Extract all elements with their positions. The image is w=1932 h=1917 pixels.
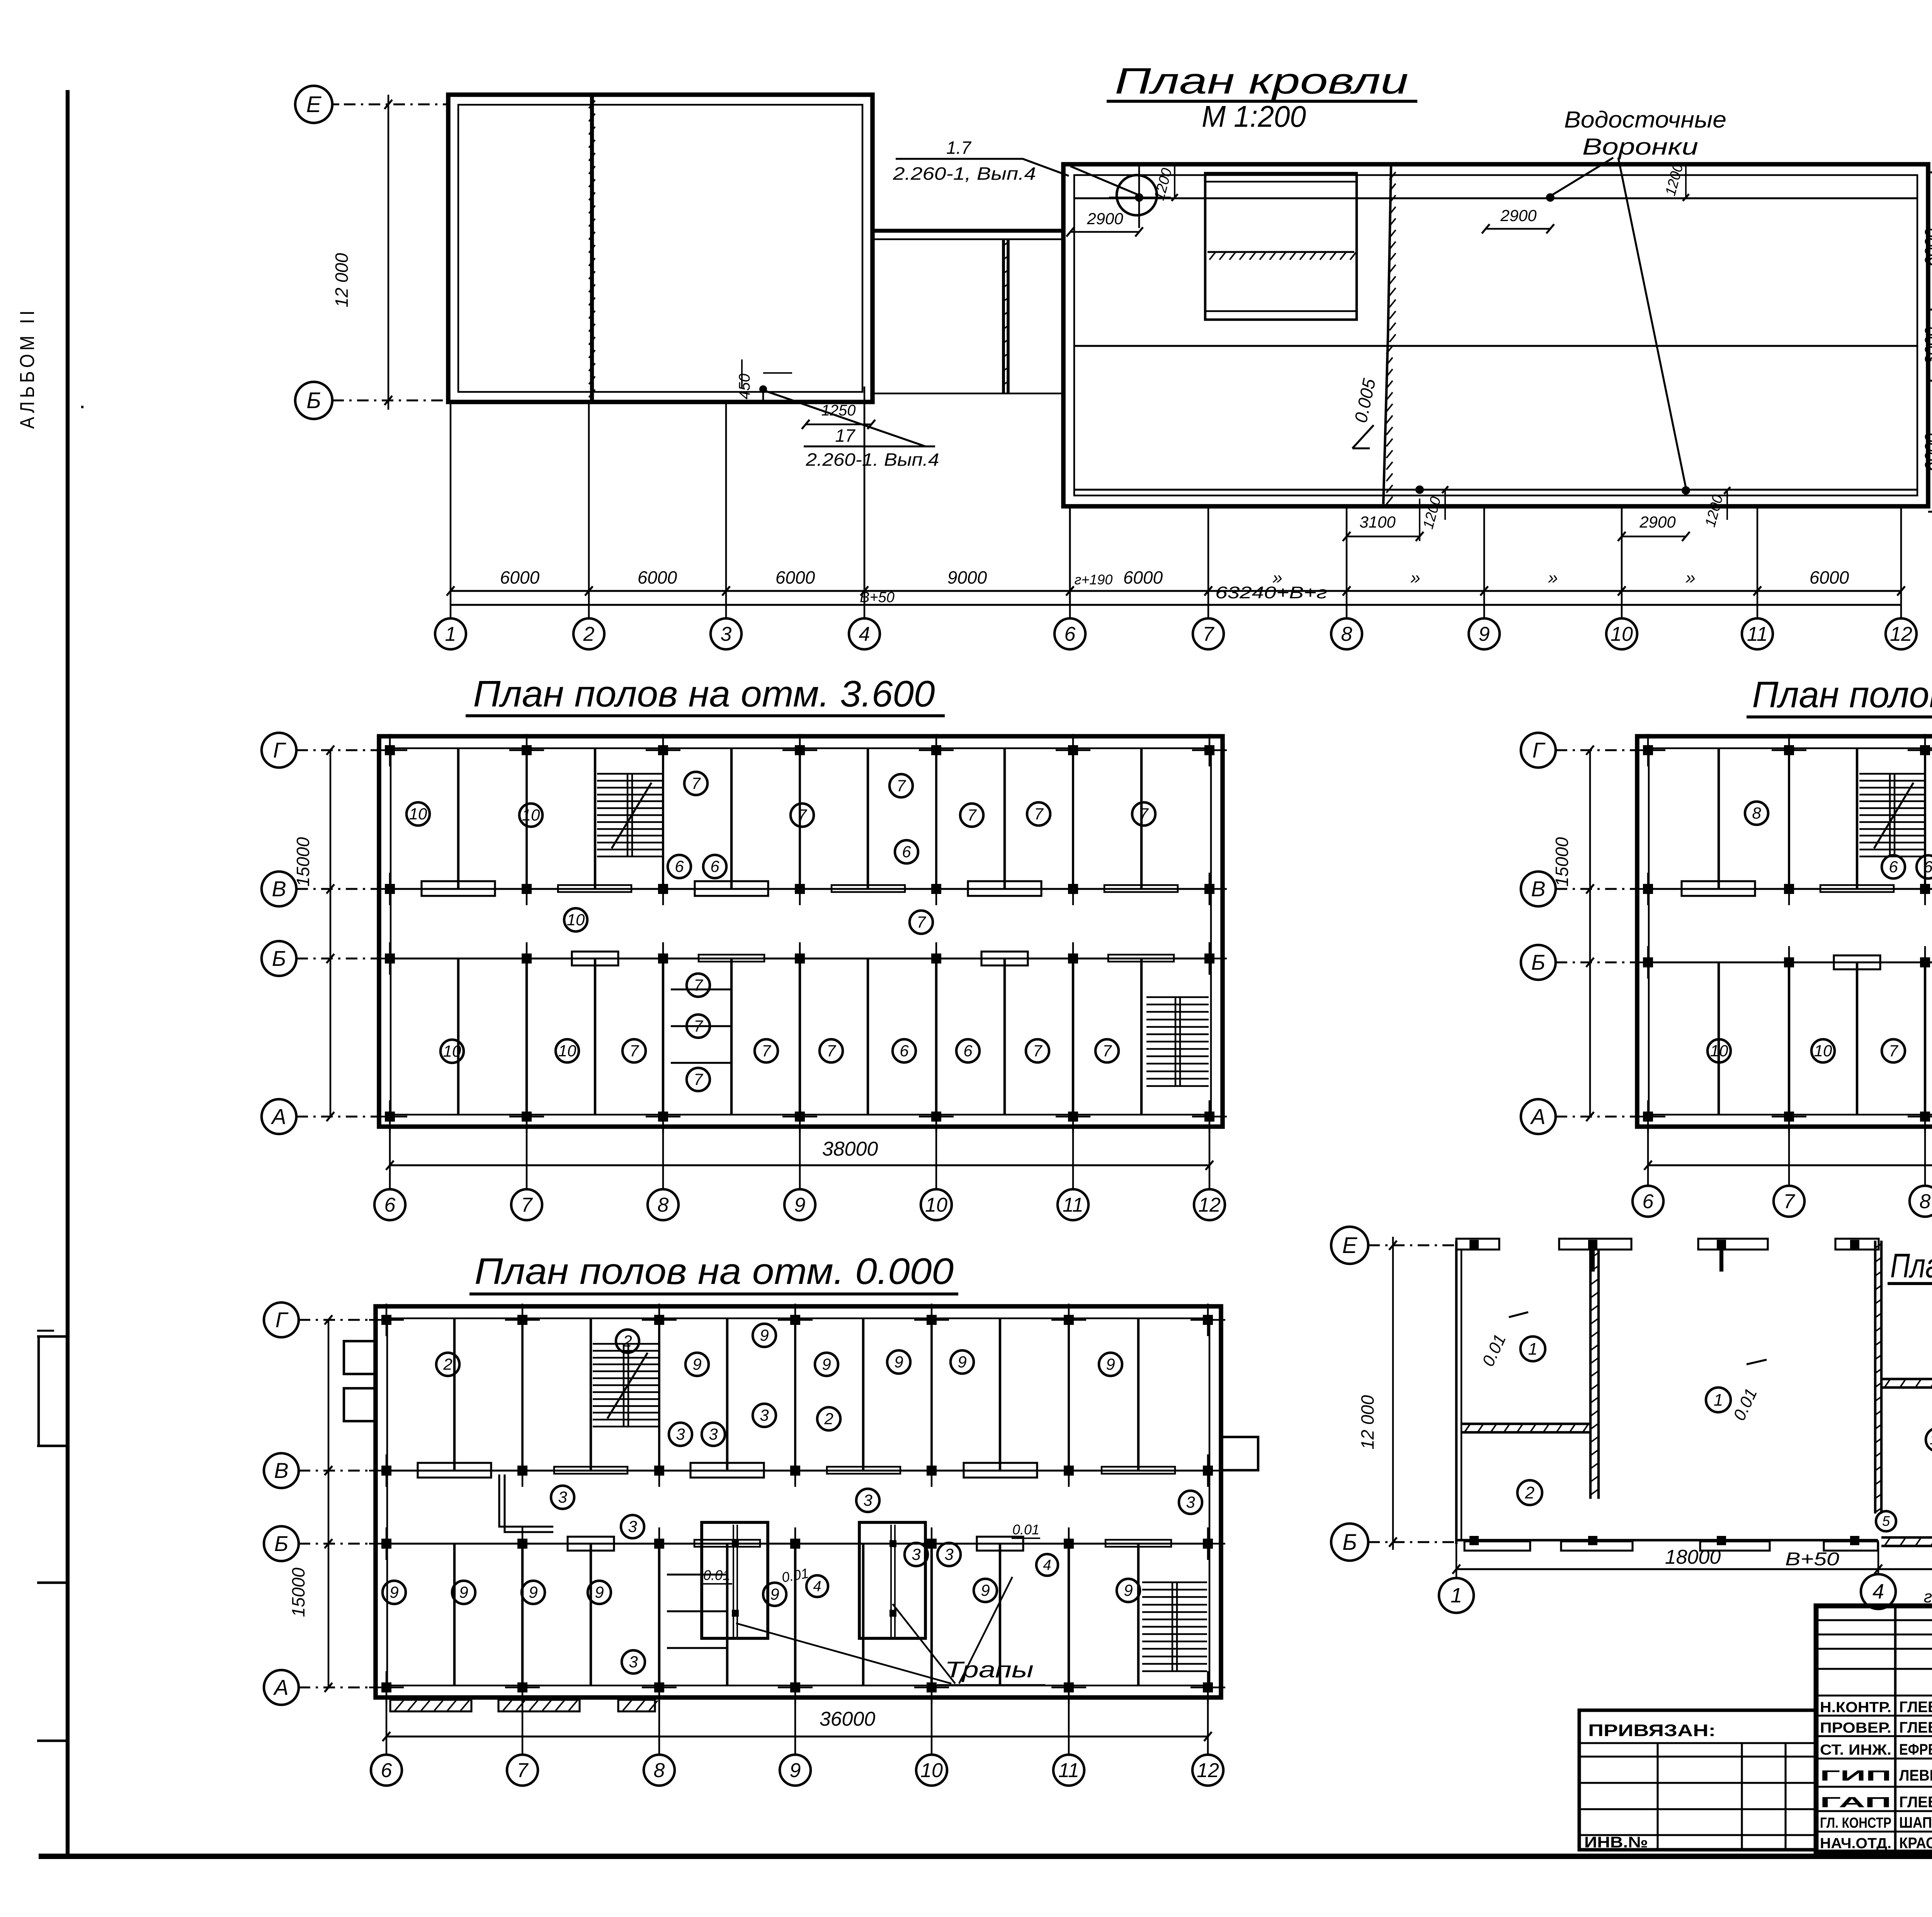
svg-text:ГЛЕБОВ: ГЛЕБОВ [1899,1719,1932,1736]
svg-text:А: А [270,1104,286,1129]
svg-text:Водосточные: Водосточные [1564,107,1726,133]
svg-text:Г: Г [1532,738,1546,762]
svg-text:В: В [274,1458,288,1483]
svg-text:10: 10 [558,1042,577,1060]
svg-text:3: 3 [628,1517,637,1536]
svg-text:7: 7 [1102,1042,1112,1060]
svg-text:7: 7 [629,1042,639,1060]
svg-text:7: 7 [521,1194,533,1216]
svg-text:12 000: 12 000 [332,253,352,307]
svg-text:12 000: 12 000 [1357,1395,1378,1449]
svg-text:Е: Е [306,92,322,117]
svg-text:СТ. ИНЖ.: СТ. ИНЖ. [1820,1742,1891,1758]
svg-text:10: 10 [925,1194,947,1216]
svg-text:9: 9 [389,1583,398,1601]
svg-text:2: 2 [824,1410,833,1428]
svg-text:7: 7 [917,913,926,931]
svg-text:6: 6 [1923,858,1932,876]
svg-text:7: 7 [694,1070,703,1088]
svg-text:3100: 3100 [1359,513,1396,531]
svg-text:38000: 38000 [822,1138,878,1160]
svg-text:Трапы: Трапы [945,1657,1034,1682]
svg-text:3: 3 [863,1491,872,1509]
svg-text:7: 7 [762,1042,771,1060]
svg-text:3: 3 [676,1425,685,1443]
svg-text:450: 450 [736,374,753,400]
svg-text:Воронки: Воронки [1582,134,1698,160]
svg-text:6: 6 [1643,1190,1654,1213]
svg-text:А: А [273,1675,288,1699]
svg-text:7: 7 [1139,805,1149,823]
svg-text:4: 4 [1043,1557,1051,1573]
svg-text:1: 1 [1451,1584,1462,1607]
svg-text:»: » [1685,567,1696,587]
svg-text:Б: Б [306,388,321,413]
svg-text:9: 9 [760,1326,769,1344]
svg-text:В: В [272,877,286,901]
svg-text:2900: 2900 [1639,513,1676,531]
svg-text:15000: 15000 [288,1568,308,1617]
svg-text:8: 8 [654,1759,665,1782]
svg-text:6: 6 [710,857,719,875]
svg-text:6: 6 [963,1042,973,1060]
svg-text:3: 3 [912,1545,920,1563]
svg-text:7: 7 [691,774,701,792]
svg-text:9: 9 [1106,1355,1115,1373]
svg-text:КРАСАВИН: КРАСАВИН [1899,1835,1932,1852]
svg-text:6: 6 [902,843,911,861]
svg-text:ГИП: ГИП [1820,1768,1891,1784]
svg-text:9: 9 [981,1581,990,1599]
svg-text:10: 10 [567,911,585,929]
svg-text:г+190: г+190 [1075,572,1113,587]
svg-text:9: 9 [894,1353,903,1371]
svg-text:15000: 15000 [293,837,313,887]
svg-text:Е: Е [1342,1233,1358,1258]
svg-text:2900: 2900 [1500,206,1537,225]
svg-text:9: 9 [595,1583,604,1601]
svg-text:6: 6 [675,857,684,875]
svg-text:6: 6 [1889,858,1898,876]
svg-text:ГЛ. КОНСТР: ГЛ. КОНСТР [1820,1815,1891,1831]
svg-text:0.01: 0.01 [703,1567,730,1583]
svg-text:36000: 36000 [820,1708,876,1730]
svg-text:63240+В+г: 63240+В+г [1215,583,1327,602]
svg-text:10: 10 [443,1042,461,1060]
svg-text:4: 4 [859,623,870,645]
svg-text:В+50: В+50 [860,589,895,606]
svg-text:2: 2 [443,1355,452,1373]
svg-text:11: 11 [1063,1194,1083,1216]
svg-text:7: 7 [694,1017,703,1035]
svg-text:ШАПИРО: ШАПИРО [1899,1814,1932,1831]
svg-text:ПРОВЕР.: ПРОВЕР. [1820,1720,1891,1736]
svg-text:1.7: 1.7 [946,138,971,158]
svg-text:2: 2 [1525,1483,1534,1502]
svg-text:9: 9 [1479,623,1490,645]
svg-text:ЛЕВИНА: ЛЕВИНА [1899,1767,1932,1784]
svg-text:6: 6 [1065,623,1076,645]
svg-text:6: 6 [384,1194,396,1216]
svg-text:7: 7 [517,1759,529,1782]
svg-text:6000: 6000 [1810,567,1849,587]
svg-text:А: А [1530,1104,1545,1129]
svg-text:НАЧ.ОТД.: НАЧ.ОТД. [1820,1835,1891,1852]
svg-text:9: 9 [770,1585,779,1603]
svg-text:10: 10 [522,806,540,824]
svg-text:3000: 3000 [1922,327,1932,365]
svg-text:Н.КОНТР.: Н.КОНТР. [1820,1699,1891,1716]
svg-text:В: В [1531,877,1545,901]
svg-text:10: 10 [409,805,427,823]
svg-text:17: 17 [835,426,855,446]
svg-text:8: 8 [1920,1190,1931,1213]
svg-text:3: 3 [760,1406,769,1424]
svg-text:ЕФРЕМОВА: ЕФРЕМОВА [1899,1741,1932,1758]
svg-text:Г: Г [273,738,286,762]
svg-text:2900: 2900 [1087,209,1123,228]
svg-text:4: 4 [813,1578,821,1595]
svg-text:8: 8 [1752,804,1761,822]
svg-text:15000: 15000 [1552,837,1572,887]
svg-text:3: 3 [721,623,732,645]
svg-text:9000: 9000 [947,567,987,587]
svg-text:1: 1 [445,623,456,645]
svg-text:7: 7 [1889,1042,1898,1060]
svg-text:Б: Б [1342,1530,1357,1555]
svg-text:5: 5 [1882,1513,1890,1529]
svg-text:3: 3 [1186,1493,1195,1511]
svg-text:10: 10 [920,1759,943,1782]
svg-text:1а: 1а [1930,1432,1932,1447]
svg-text:7: 7 [1203,623,1215,645]
svg-text:7: 7 [967,806,977,824]
svg-text:12: 12 [1890,623,1912,645]
svg-text:2.260-1. Вып.4: 2.260-1. Вып.4 [805,449,939,470]
svg-text:1: 1 [1714,1391,1723,1410]
svg-text:ГАП: ГАП [1820,1794,1891,1811]
svg-text:3: 3 [629,1653,638,1671]
svg-text:2.260-1, Вып.4: 2.260-1, Вып.4 [893,163,1036,184]
svg-text:9: 9 [1124,1581,1133,1599]
svg-text:М 1:200: М 1:200 [1202,99,1306,133]
svg-text:План полов на отм. 3.600: План полов на отм. 3.600 [473,673,935,715]
svg-text:6000: 6000 [1922,433,1932,471]
svg-text:10: 10 [1710,1042,1728,1060]
svg-text:10: 10 [1611,623,1633,645]
svg-text:ГЛЕБОВ: ГЛЕБОВ [1899,1699,1932,1716]
svg-text:7: 7 [694,976,703,994]
svg-text:7: 7 [1033,1042,1043,1060]
svg-text:В+50: В+50 [1785,1549,1839,1570]
svg-text:4: 4 [1872,1580,1884,1603]
svg-text:12: 12 [1198,1194,1221,1216]
svg-text:»: » [1548,567,1558,587]
svg-text:8: 8 [1341,623,1352,645]
svg-text:6: 6 [381,1759,392,1782]
svg-text:6000: 6000 [776,567,815,587]
svg-text:План кровли: План кровли [1115,61,1408,102]
svg-text:План полов на отм. 0.000: План полов на отм. 0.000 [474,1251,954,1292]
svg-text:7: 7 [827,1042,836,1060]
svg-text:7: 7 [896,776,906,795]
svg-text:План полов на отм. 7.200: План полов на отм. 7.200 [1752,674,1932,715]
svg-text:6000: 6000 [500,567,540,587]
svg-text:9: 9 [459,1583,468,1601]
svg-text:11: 11 [1747,623,1768,645]
svg-text:6000: 6000 [638,567,677,587]
svg-text:9: 9 [692,1355,701,1373]
svg-text:ИНВ.№: ИНВ.№ [1584,1834,1648,1851]
svg-text:6000: 6000 [1922,228,1932,266]
svg-text:18000: 18000 [1665,1546,1721,1568]
svg-text:12: 12 [1197,1759,1219,1782]
svg-text:3: 3 [944,1545,953,1563]
svg-text:6: 6 [900,1042,909,1060]
svg-text:11: 11 [1058,1759,1079,1782]
svg-text:7: 7 [798,806,807,824]
svg-text:10: 10 [1814,1042,1832,1060]
svg-text:3: 3 [558,1488,567,1506]
svg-text:9: 9 [529,1583,537,1601]
svg-text:ГЛЕБОВ: ГЛЕБОВ [1899,1794,1932,1811]
svg-text:9: 9 [957,1353,966,1371]
svg-text:0.01: 0.01 [1012,1522,1039,1537]
svg-text:9: 9 [790,1759,801,1782]
svg-text:2: 2 [583,623,595,645]
svg-text:ПРИВЯЗАН:: ПРИВЯЗАН: [1588,1721,1716,1740]
svg-text:8: 8 [658,1194,669,1216]
svg-text:7: 7 [1784,1190,1796,1213]
svg-text:1250: 1250 [821,402,856,419]
svg-text:6000: 6000 [1123,567,1163,587]
svg-text:»: » [1410,567,1420,587]
svg-text:Б: Б [1531,950,1545,974]
svg-text:9: 9 [794,1194,806,1216]
svg-text:7: 7 [1034,805,1044,823]
svg-text:3: 3 [709,1425,718,1443]
svg-text:1: 1 [1528,1340,1537,1359]
svg-text:АЛЬБОМ II: АЛЬБОМ II [16,307,39,429]
svg-text:Г: Г [276,1308,289,1332]
svg-text:План полов на отм.0.000: План полов на отм.0.000 [1890,1246,1932,1285]
svg-text:Б: Б [274,1531,288,1556]
svg-text:9: 9 [822,1355,831,1373]
svg-text:2: 2 [622,1332,632,1350]
svg-text:Б: Б [272,946,286,970]
